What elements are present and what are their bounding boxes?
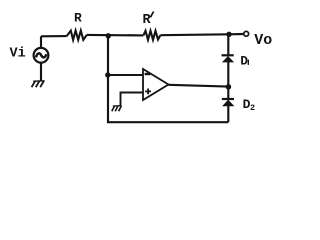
svg-text:Vo: Vo: [254, 32, 272, 49]
svg-text:Vi: Vi: [10, 46, 26, 61]
svg-text:D: D: [240, 54, 248, 68]
svg-text:2: 2: [250, 103, 255, 113]
svg-text:R: R: [74, 10, 82, 25]
svg-text:R: R: [143, 13, 152, 28]
